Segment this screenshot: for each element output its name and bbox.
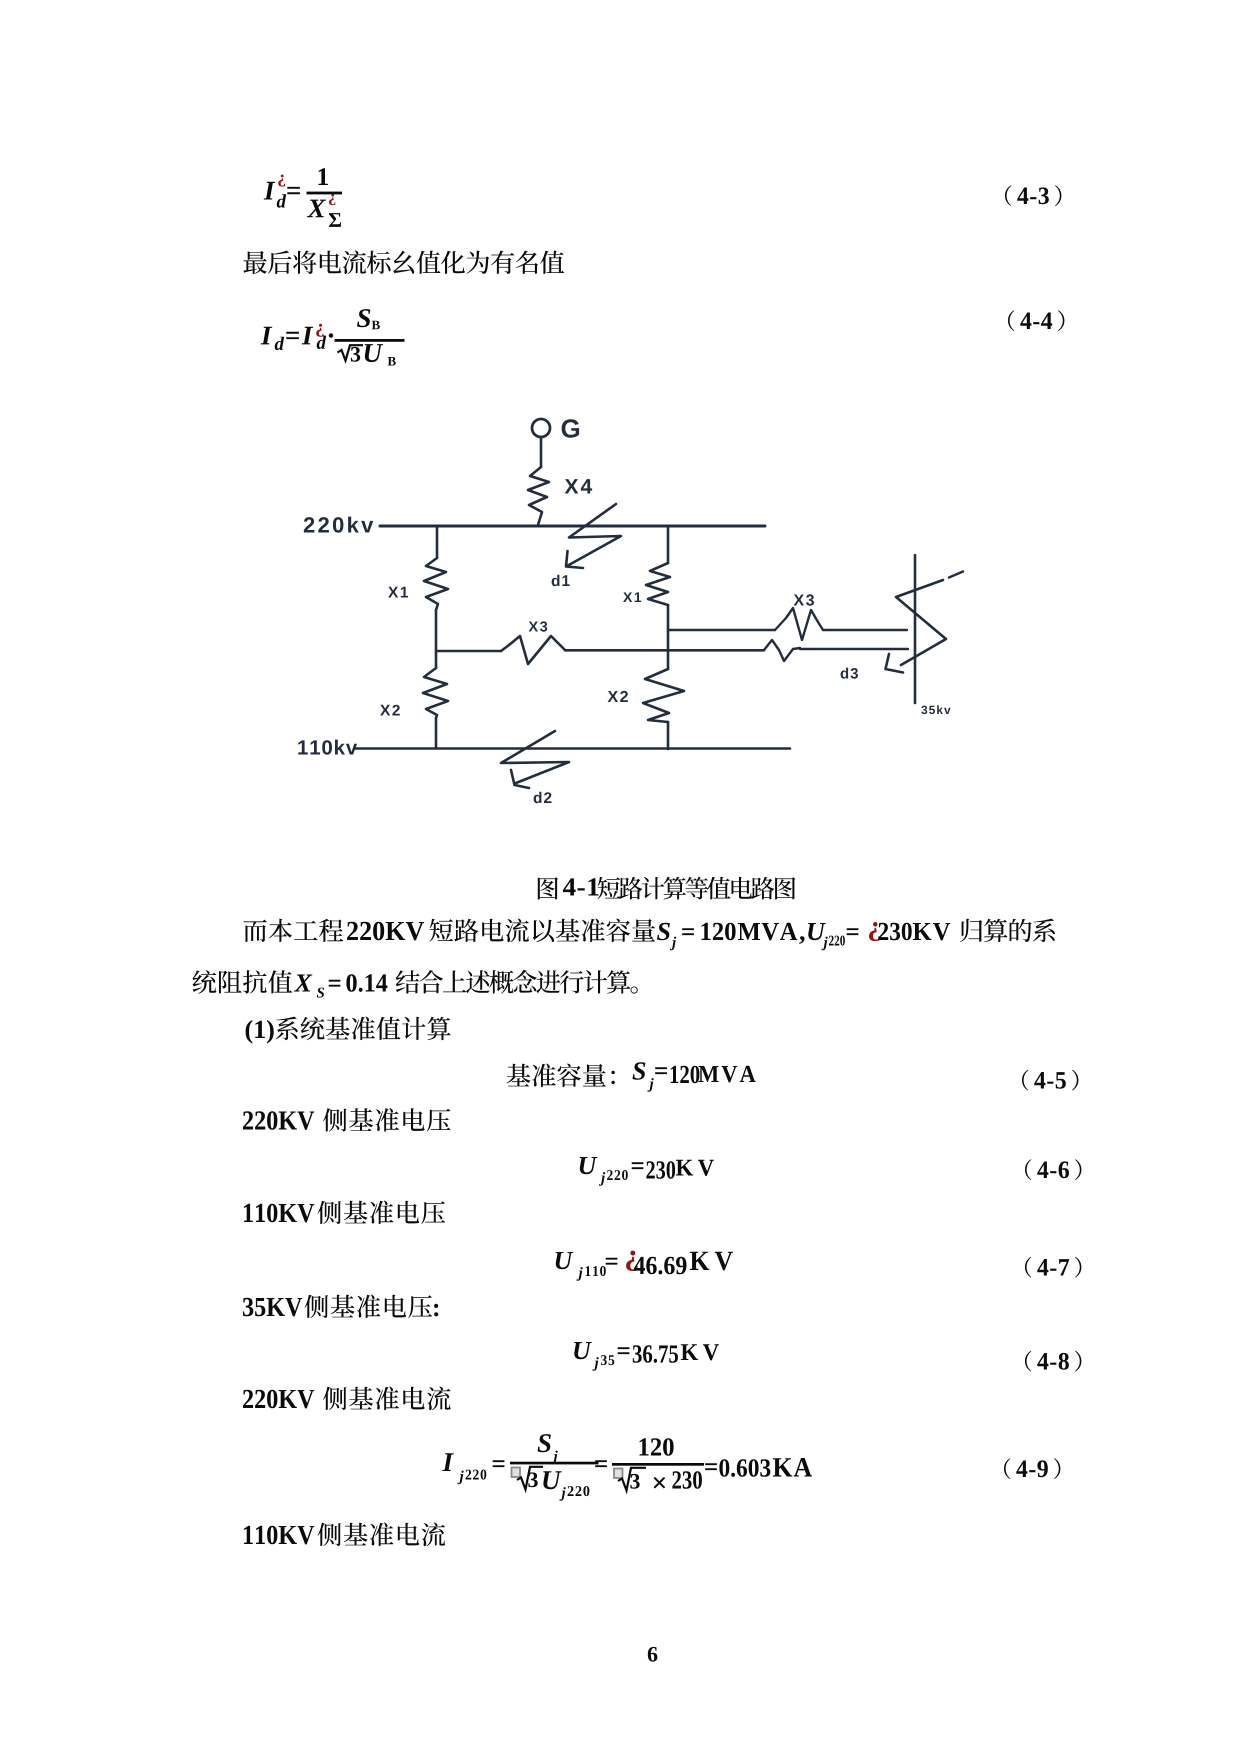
wire: X3 right to 35kv bus [823,629,907,631]
reactance X2 right (zigzag) [643,669,684,722]
wire: left node to X3 middle [437,650,501,653]
reactance X1 right (zigzag) [646,563,670,605]
wire: right node to X3 right [668,629,775,631]
fraction bar 4-9 first [510,1462,599,1465]
radical sign 4-9 first [517,1467,543,1490]
wire: 220kv bus to X1 right [667,526,670,563]
equation number (4-5) [1022,1070,1078,1091]
bus 35kv [914,555,917,703]
wire: lower tie to 35kv bus [800,648,908,650]
bolt d3 dash segment [949,572,963,578]
gray box artifact 2 [614,1469,623,1479]
fraction bar 4-9 second [612,1463,704,1466]
equation number (4-9) [1004,1458,1060,1479]
item (1) xitong jizhunzhi jisuan [246,1017,451,1044]
220KV ce jizhun dianliu [243,1387,451,1411]
formula 4-4: Id = Id * SB / sqrt3 UB [261,309,396,365]
zigzag on lower 35kv tie line [764,640,800,661]
reactance X4 (zigzag) [528,467,549,525]
label X2 left [380,705,400,716]
reactance X3 right (zigzag) [775,608,823,640]
equation number (4-3) [1005,185,1061,206]
label 110kv bus [298,740,357,755]
label 35kv bus [921,705,950,714]
equation number (4-8) [1025,1351,1081,1372]
label 220kv bus [304,517,374,533]
35KV ce jizhun dianya: [243,1295,438,1319]
generator label G [562,419,580,438]
Uj35 = 36.75KV [574,1342,719,1371]
generator G symbol [532,419,550,437]
label X3 right [794,594,814,605]
arrowhead d1 [566,551,583,568]
fraction bar 4-3 [307,192,343,195]
label X2 right [608,691,628,702]
formula 4-9: Ij220 = Sj / sqrt3 Uj220 = 120 / sqrt3 x 230 = 0.603KA [442,1434,812,1501]
equation number (4-6) [1025,1159,1081,1180]
wire: generator to X4 [540,438,543,468]
page number 6 [648,1647,658,1662]
wire: X1 right through node to X2 right [667,605,670,669]
label d1 [552,575,570,586]
equation number (4-4) [1008,310,1064,331]
wire: 220kv bus to X1 left [436,526,439,558]
short-circuit bolt d3 [896,580,946,665]
text line: zuihou jiang dianliu biaoyaozhi huawei youmingzhi [244,250,565,274]
bus 220kv [380,525,765,528]
reactance X3 middle (zigzag) [501,636,565,664]
wire: X2 left to 110kv bus [435,718,438,748]
paragraph line 1 [244,919,1055,951]
arrowhead d3 [886,654,904,673]
110KV ce jizhun dianliu [244,1523,445,1547]
110KV ce jizhun dianya [244,1201,445,1225]
220KV ce jizhun dianya [243,1108,451,1132]
wire: X3 middle to lower tie [565,649,764,652]
gray box artifact 1 [512,1468,521,1478]
Uj110 = 46.69KV [556,1251,733,1281]
paragraph line 2 [193,970,638,998]
radical sign 4-9 second [618,1468,646,1491]
fraction bar 4-4 [335,339,405,342]
equation number (4-7) [1025,1257,1081,1278]
wire: X2 right to 110kv bus [667,722,670,749]
reactance X1 left (zigzag) [424,558,448,610]
reactance X2 left (zigzag) [423,668,448,718]
figure caption: tu 4-1 duanlu jisuan dengzhi dianlu tu [538,877,796,900]
bus 110kv [355,747,790,750]
formula 4-3: Id = 1 / X-sigma [264,168,341,227]
label d3 [841,668,858,679]
label X4 [565,479,592,493]
jizhun rongliang: Sj=120MVA [507,1062,756,1091]
short-circuit bolt d2 [501,731,569,783]
label X3 middle [529,621,548,631]
Uj220 = 230KV [580,1157,714,1186]
radical sign 4-4 [338,345,364,360]
label X1 left [388,587,408,598]
short-circuit bolt d1 [567,504,621,566]
arrowhead d2 [511,770,529,788]
label d2 [534,792,552,803]
label X1 right [623,592,641,602]
wire: X1 left through node to X2 left [435,610,438,668]
